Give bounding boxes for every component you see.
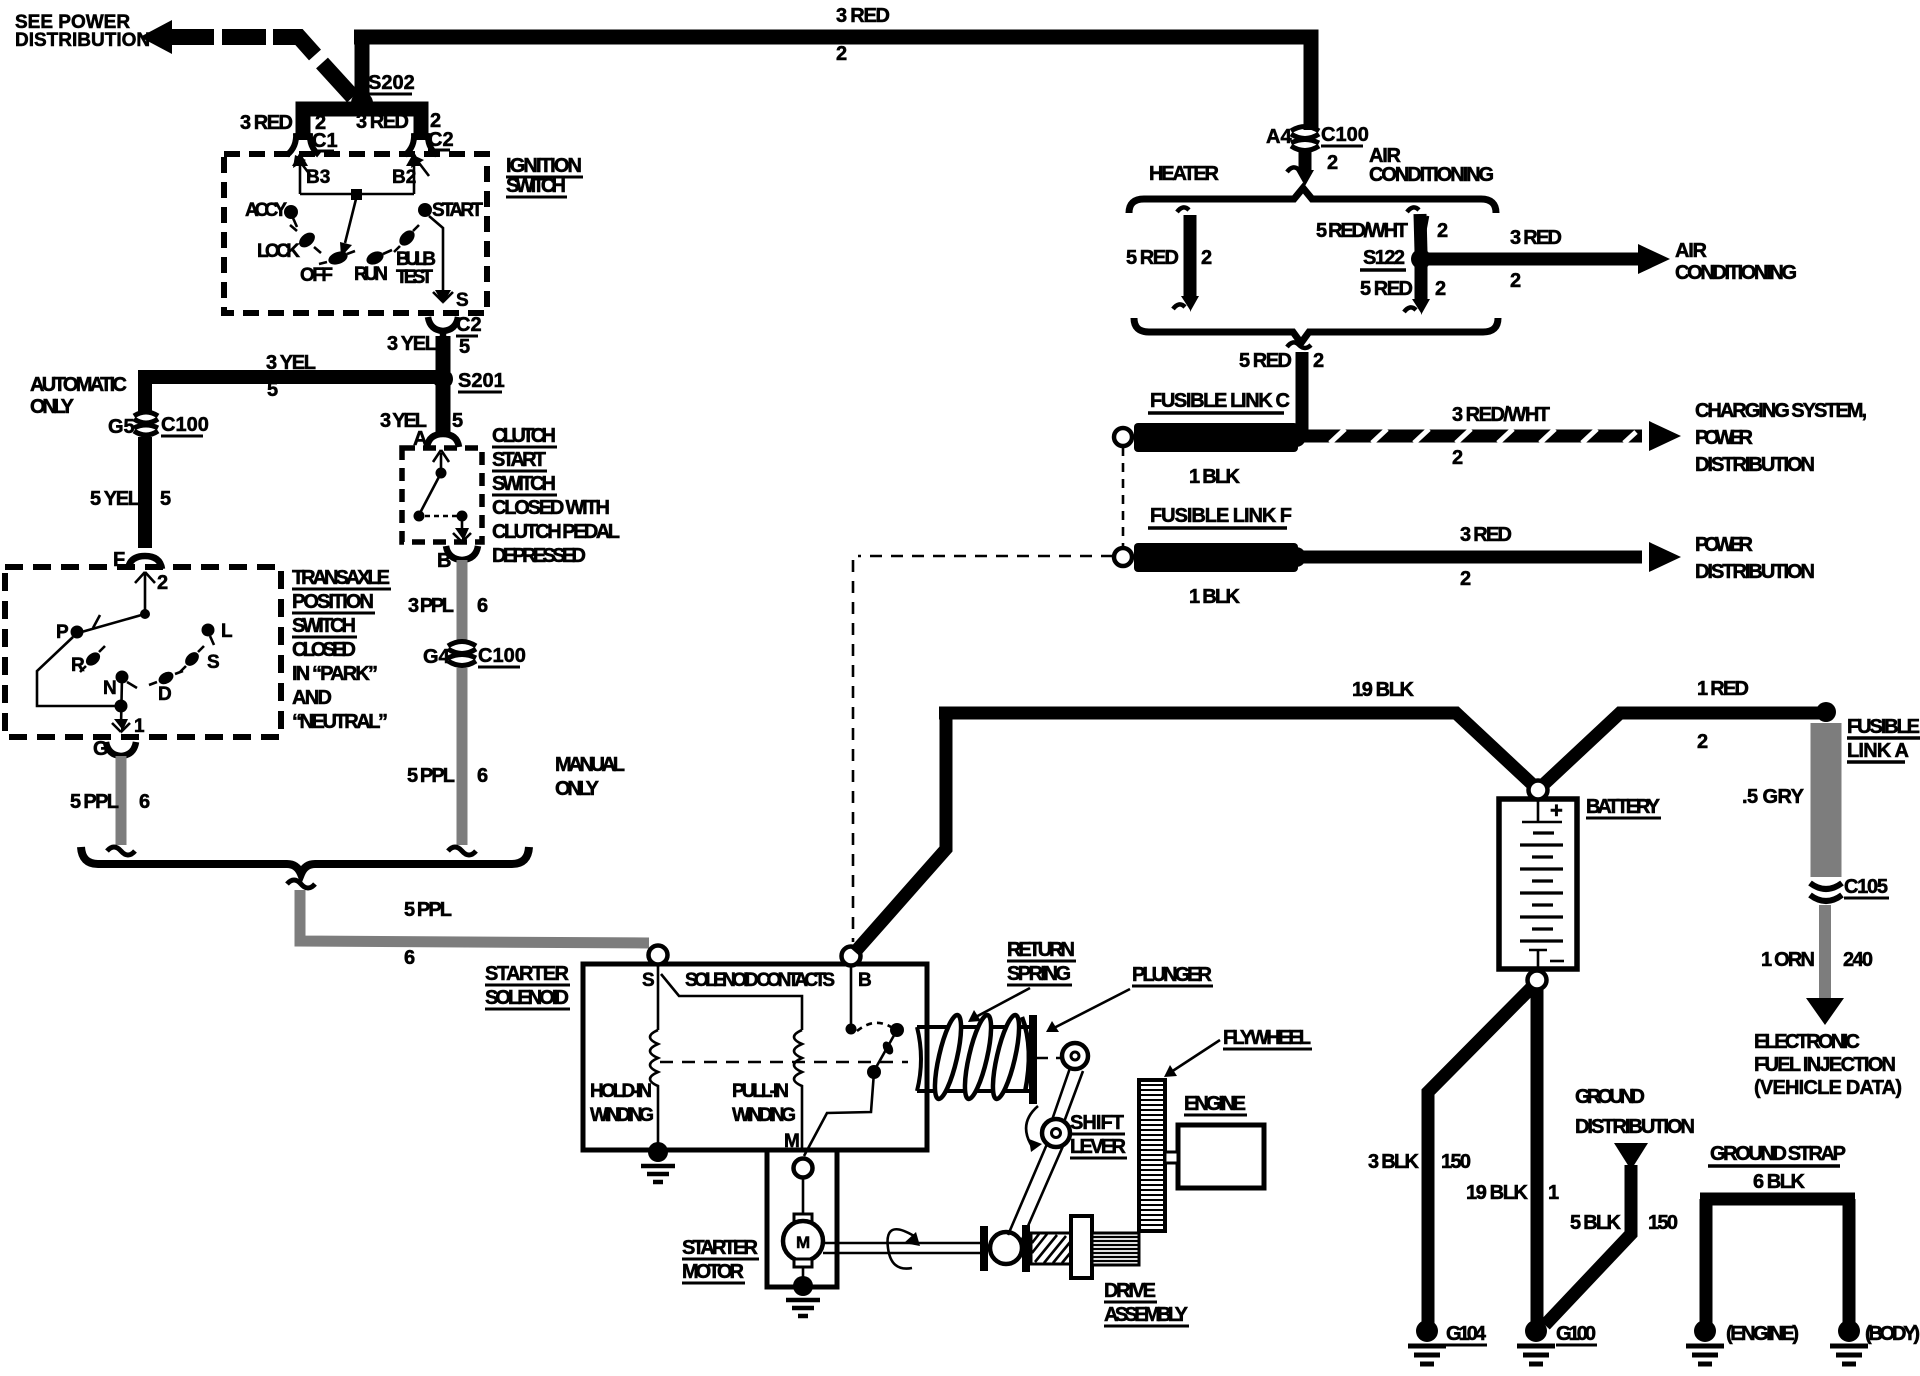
- connector C1 flare: [287, 133, 319, 155]
- svg-text:C2: C2: [456, 314, 482, 336]
- wire 5 RED below S122: [1415, 266, 1428, 300]
- svg-text:3 YEL: 3 YEL: [387, 333, 437, 355]
- connector G5 C100: [134, 412, 158, 423]
- ground starter motor: [793, 1276, 813, 1296]
- wire to heater brace: [1299, 152, 1312, 172]
- svg-text:S: S: [642, 970, 655, 991]
- wire 3 PPL: [457, 560, 468, 641]
- SEC_GROUNDS: [1368, 987, 1920, 1364]
- shift lever: [1052, 1068, 1083, 1122]
- svg-text:2: 2: [1201, 247, 1212, 269]
- contact START: [418, 203, 432, 217]
- svg-text:SWITCH: SWITCH: [292, 615, 356, 637]
- wire 5 YEL: [138, 437, 152, 548]
- wire 3 RED to power distribution: [1302, 551, 1642, 564]
- contact RUN: [364, 249, 385, 267]
- dashed axis to lever: [1037, 1057, 1062, 1060]
- svg-text:19 BLK: 19 BLK: [1352, 679, 1415, 701]
- svg-text:S202: S202: [368, 72, 415, 94]
- svg-text:SWITCH: SWITCH: [492, 473, 556, 495]
- svg-text:CHARGING SYSTEM,: CHARGING SYSTEM,: [1695, 400, 1867, 422]
- wire 5 PPL from G: [116, 756, 127, 845]
- svg-text:5: 5: [267, 379, 278, 401]
- svg-text:3 RED: 3 RED: [1510, 227, 1562, 249]
- wire dashed arrow to power distribution: [140, 20, 172, 54]
- svg-text:6: 6: [477, 765, 488, 787]
- svg-text:DISTRIBUTION: DISTRIBUTION: [1695, 561, 1815, 583]
- SEC_TOPLEFT: [15, 5, 1311, 176]
- svg-text:FUSIBLE LINK F: FUSIBLE LINK F: [1150, 505, 1292, 527]
- svg-text:1 ORN: 1 ORN: [1761, 949, 1815, 971]
- wire 5 RED/WHT to S122: [1407, 207, 1419, 212]
- svg-text:S122: S122: [1363, 247, 1405, 269]
- ground G100: [1525, 1320, 1547, 1342]
- svg-text:WINDING: WINDING: [590, 1105, 654, 1126]
- svg-text:ELECTRONIC: ELECTRONIC: [1754, 1031, 1860, 1053]
- svg-text:ONLY: ONLY: [555, 778, 600, 800]
- svg-text:A4: A4: [1266, 126, 1292, 148]
- clutch start switch box: [402, 448, 482, 542]
- svg-text:.5 GRY: .5 GRY: [1742, 786, 1805, 808]
- brace lower: [1134, 318, 1498, 343]
- contact L: [202, 624, 215, 637]
- svg-text:IN “PARK”: IN “PARK”: [292, 663, 378, 685]
- contact D: [156, 669, 175, 687]
- svg-text:C100: C100: [1321, 124, 1369, 146]
- shaft end plate: [980, 1226, 988, 1271]
- wire 19 BLK battery to G100: [1531, 989, 1544, 1326]
- svg-text:POSITION: POSITION: [292, 591, 374, 613]
- wire F feed to wiper: [144, 592, 147, 614]
- wire S202 to C1: [303, 109, 362, 140]
- svg-text:PULL-IN: PULL-IN: [732, 1081, 789, 1102]
- svg-text:G100: G100: [1556, 1323, 1596, 1345]
- wire B3-B2 bridge: [300, 193, 414, 196]
- pin B2: [413, 158, 416, 194]
- terminal S: [649, 946, 668, 965]
- plunger body: [917, 1027, 1030, 1091]
- ground body: [1838, 1320, 1860, 1342]
- SEC_FUSIBLES: [858, 390, 1867, 608]
- ball joint: [990, 1232, 1022, 1264]
- svg-text:3 YEL: 3 YEL: [266, 352, 316, 374]
- svg-text:5 RED: 5 RED: [1360, 278, 1413, 300]
- wire 3 RED to air conditioning: [1428, 253, 1642, 266]
- svg-text:1: 1: [134, 716, 145, 737]
- svg-text:C100: C100: [478, 645, 526, 667]
- drive assembly: [1022, 1225, 1030, 1272]
- svg-text:5 PPL: 5 PPL: [404, 899, 452, 921]
- ground G104: [1416, 1320, 1438, 1342]
- svg-text:(BODY): (BODY): [1865, 1323, 1920, 1345]
- svg-text:FUEL INJECTION: FUEL INJECTION: [1754, 1054, 1896, 1076]
- motor M: [802, 1178, 805, 1214]
- svg-text:G4: G4: [423, 646, 451, 668]
- svg-text:5 RED: 5 RED: [1239, 350, 1292, 372]
- svg-text:G5: G5: [108, 416, 135, 438]
- contact ACCY: [284, 205, 298, 219]
- svg-text:POWER: POWER: [1695, 534, 1754, 556]
- svg-text:5: 5: [160, 488, 171, 510]
- svg-text:S201: S201: [458, 370, 505, 392]
- svg-text:3 RED: 3 RED: [1460, 524, 1512, 546]
- svg-text:LEVER: LEVER: [1070, 1136, 1127, 1158]
- svg-text:STARTER: STARTER: [682, 1237, 759, 1259]
- svg-text:CONDITIONING: CONDITIONING: [1369, 164, 1494, 186]
- svg-text:SPRING: SPRING: [1007, 963, 1071, 985]
- wire S to windings: [657, 965, 660, 1030]
- svg-text:240: 240: [1843, 949, 1873, 971]
- svg-text:3 PPL: 3 PPL: [408, 595, 454, 617]
- SEC_19BLK: [853, 560, 1836, 952]
- svg-text:2: 2: [1697, 731, 1708, 753]
- wire S202 to C2: [362, 109, 421, 140]
- ignition switch box: [224, 154, 487, 313]
- svg-text:TRANSAXLE: TRANSAXLE: [292, 567, 390, 589]
- contact R: [83, 650, 102, 669]
- node S202: [351, 92, 373, 114]
- svg-text:3 RED/WHT: 3 RED/WHT: [1452, 404, 1550, 426]
- wire 3 YEL horizontal automatic branch: [145, 377, 443, 414]
- connector F: [128, 556, 162, 569]
- wire 5 RED to fusible link C: [1296, 352, 1309, 432]
- connector B flare: [446, 546, 478, 560]
- svg-text:DRIVE: DRIVE: [1104, 1280, 1156, 1302]
- svg-text:CLUTCH PEDAL: CLUTCH PEDAL: [492, 521, 620, 543]
- svg-text:RUN: RUN: [354, 264, 388, 285]
- svg-text:150: 150: [1648, 1212, 1678, 1234]
- svg-text:HEATER: HEATER: [1149, 163, 1220, 185]
- svg-text:5 RED/WHT: 5 RED/WHT: [1316, 220, 1408, 242]
- svg-text:3 RED: 3 RED: [240, 112, 293, 134]
- wire 3 BLK battery to G104: [1428, 987, 1532, 1326]
- starter motor box: [767, 1150, 837, 1287]
- pin A arrow: [433, 450, 449, 472]
- flywheel: [1139, 1080, 1165, 1231]
- lever rotation arrow: [1026, 1106, 1038, 1148]
- svg-text:ENGINE: ENGINE: [1184, 1093, 1246, 1115]
- svg-text:OFF: OFF: [300, 265, 333, 286]
- svg-text:5 RED: 5 RED: [1126, 247, 1179, 269]
- pin B3: [299, 158, 302, 194]
- svg-text:3 BLK: 3 BLK: [1368, 1151, 1420, 1173]
- svg-text:G: G: [93, 738, 109, 760]
- svg-text:BATTERY: BATTERY: [1586, 796, 1661, 818]
- node S122: [1411, 249, 1431, 269]
- starter solenoid box: [583, 964, 927, 1150]
- svg-text:2: 2: [157, 572, 168, 594]
- wire 19 BLK solenoid B to battery: [855, 713, 1533, 952]
- transaxle position switch box: [5, 567, 281, 737]
- wire wiper arrow to OFF: [345, 199, 356, 243]
- svg-text:150: 150: [1441, 1151, 1471, 1173]
- SEC_GATHER: [81, 847, 649, 969]
- svg-text:+: +: [1550, 798, 1563, 823]
- svg-text:START: START: [432, 200, 483, 221]
- svg-text:2: 2: [1510, 270, 1521, 292]
- svg-text:N: N: [103, 678, 117, 699]
- svg-text:2: 2: [1435, 278, 1446, 300]
- svg-text:AUTOMATIC: AUTOMATIC: [30, 374, 127, 396]
- svg-text:MANUAL: MANUAL: [555, 754, 625, 776]
- contact BULB TEST: [396, 227, 417, 248]
- svg-text:1 BLK: 1 BLK: [1189, 586, 1241, 608]
- svg-text:2: 2: [1460, 568, 1471, 590]
- svg-text:RETURN: RETURN: [1007, 939, 1075, 961]
- svg-text:B3: B3: [306, 167, 330, 188]
- svg-text:POWER: POWER: [1695, 427, 1754, 449]
- wire 3 RED/WHT striped to charging system: [1302, 430, 1642, 443]
- brace upper: [1129, 188, 1496, 213]
- wire 5 PPL: [457, 668, 468, 845]
- brace gathering 5 PPL wires: [81, 847, 529, 874]
- node S201: [433, 369, 453, 389]
- svg-text:ASSEMBLY: ASSEMBLY: [1104, 1304, 1189, 1326]
- svg-text:CLOSED: CLOSED: [292, 639, 356, 661]
- node below N: [115, 700, 128, 713]
- svg-text:1 RED: 1 RED: [1697, 678, 1749, 700]
- svg-text:ACCY: ACCY: [245, 200, 287, 221]
- wire 1 ORN to EFI: [1819, 905, 1831, 1000]
- SEC_MECH: [917, 939, 1312, 1326]
- connector G4 C100: [448, 642, 476, 654]
- svg-text:D: D: [158, 684, 172, 705]
- SEC_CLUTCH: [380, 386, 625, 855]
- svg-text:HOLD-IN: HOLD-IN: [590, 1081, 652, 1102]
- svg-text:R: R: [71, 655, 85, 676]
- SEC_FLA: [1742, 716, 1920, 1099]
- svg-text:(ENGINE): (ENGINE): [1726, 1323, 1799, 1345]
- pin B arrow: [461, 521, 464, 536]
- svg-text:LINK A: LINK A: [1847, 740, 1909, 762]
- contact LOCK: [296, 230, 318, 251]
- ground strap: [1700, 1199, 1855, 1326]
- svg-text:6: 6: [139, 791, 150, 813]
- svg-text:GROUND: GROUND: [1575, 1086, 1645, 1108]
- battery: [1499, 799, 1577, 969]
- svg-text:1 BLK: 1 BLK: [1189, 466, 1241, 488]
- svg-text:S: S: [207, 652, 220, 673]
- svg-text:GROUND STRAP: GROUND STRAP: [1710, 1143, 1846, 1165]
- rotation arrow: [888, 1229, 914, 1268]
- connector C2 flare: [405, 133, 437, 155]
- svg-text:5 YEL: 5 YEL: [90, 488, 140, 510]
- svg-text:2: 2: [1437, 220, 1448, 242]
- svg-text:2: 2: [1452, 447, 1463, 469]
- SEC_MOTOR: [682, 1150, 1022, 1316]
- contact S: [182, 649, 201, 668]
- svg-text:5 BLK: 5 BLK: [1570, 1212, 1622, 1234]
- svg-text:C100: C100: [161, 414, 209, 436]
- svg-text:CLUTCH: CLUTCH: [492, 425, 556, 447]
- svg-text:DEPRESSED: DEPRESSED: [492, 545, 586, 567]
- wire 1 RED battery to fusible link A: [1543, 713, 1820, 785]
- ground solenoid: [648, 1142, 668, 1162]
- svg-text:6: 6: [477, 595, 488, 617]
- svg-text:B2: B2: [392, 167, 416, 188]
- contact OFF: [327, 249, 350, 267]
- svg-text:P: P: [56, 622, 69, 643]
- shaft: [823, 1243, 980, 1253]
- svg-text:2: 2: [836, 43, 847, 65]
- svg-text:FLYWHEEL: FLYWHEEL: [1223, 1027, 1311, 1049]
- svg-text:G104: G104: [1446, 1323, 1487, 1345]
- svg-text:TEST: TEST: [396, 267, 433, 288]
- wire 3 YEL S201 to clutch switch: [436, 386, 451, 432]
- svg-text:5: 5: [459, 336, 470, 358]
- dashed plunger axis: [660, 1061, 908, 1064]
- svg-text:(VEHICLE DATA): (VEHICLE DATA): [1754, 1077, 1902, 1099]
- svg-text:CONDITIONING: CONDITIONING: [1675, 262, 1797, 284]
- svg-text:3 RED: 3 RED: [356, 111, 409, 133]
- wire START to S: [429, 216, 443, 296]
- contact P: [71, 626, 84, 639]
- svg-text:ONLY: ONLY: [30, 396, 75, 418]
- svg-text:M: M: [796, 1233, 810, 1252]
- SEC_TRANSAXLE: [5, 567, 391, 855]
- svg-text:DISTRIBUTION: DISTRIBUTION: [1575, 1116, 1695, 1138]
- SEC_SOLENOID: [485, 946, 927, 1183]
- svg-text:DISTRIBUTION: DISTRIBUTION: [1695, 454, 1815, 476]
- connector A4 C100: [1291, 127, 1319, 139]
- terminal M: [794, 1159, 813, 1178]
- svg-text:6: 6: [404, 947, 415, 969]
- svg-text:SHIFT: SHIFT: [1070, 1112, 1124, 1134]
- contact N: [116, 671, 129, 684]
- svg-text:SWITCH: SWITCH: [506, 175, 566, 197]
- coil pull-in winding: [794, 1030, 802, 1150]
- return spring coils: [930, 1013, 1029, 1101]
- svg-text:S: S: [456, 290, 469, 311]
- svg-text:FUSIBLE LINK C: FUSIBLE LINK C: [1150, 390, 1290, 412]
- plunger end cap: [1029, 1015, 1037, 1104]
- svg-text:AND: AND: [292, 687, 332, 709]
- svg-text:IGNITION: IGNITION: [506, 155, 582, 177]
- SEC_IGNITION: [224, 152, 583, 372]
- dashed link between fusible links: [1122, 447, 1125, 548]
- svg-text:SOLENOID CONTACTS: SOLENOID CONTACTS: [685, 970, 835, 991]
- wire 5 PPL to starter solenoid: [300, 890, 649, 943]
- svg-text:5 PPL: 5 PPL: [407, 765, 455, 787]
- svg-text:1: 1: [1548, 1182, 1559, 1204]
- switch arm: [420, 473, 441, 513]
- wire 5 RED heater branch: [1177, 207, 1189, 212]
- svg-text:19 BLK: 19 BLK: [1466, 1182, 1529, 1204]
- svg-text:C105: C105: [1844, 876, 1888, 898]
- svg-text:CLOSED WITH: CLOSED WITH: [492, 497, 610, 519]
- ground engine: [1694, 1320, 1716, 1342]
- wire 5 BLK from ground distribution: [1614, 1143, 1648, 1170]
- svg-text:2: 2: [1327, 152, 1338, 174]
- solenoid contacts mechanism: [850, 965, 853, 1026]
- wire P to N leg: [37, 637, 121, 706]
- fusible link A: [1811, 723, 1842, 877]
- svg-text:6 BLK: 6 BLK: [1753, 1171, 1806, 1193]
- svg-text:L: L: [221, 621, 233, 642]
- svg-text:WINDING: WINDING: [732, 1105, 796, 1126]
- svg-text:AIR: AIR: [1675, 240, 1708, 262]
- connector A flare: [427, 434, 459, 447]
- svg-text:3 RED: 3 RED: [836, 5, 890, 27]
- svg-text:LOCK: LOCK: [257, 241, 300, 262]
- svg-text:5 PPL: 5 PPL: [70, 791, 119, 813]
- connector C2 below ignition switch: [428, 317, 458, 340]
- svg-text:B: B: [858, 970, 872, 991]
- svg-text:DISTRIBUTION: DISTRIBUTION: [15, 30, 150, 51]
- svg-text:“NEUTRAL”: “NEUTRAL”: [292, 711, 388, 733]
- dashed line fusible links to solenoid B: [852, 560, 855, 942]
- svg-text:PLUNGER: PLUNGER: [1132, 964, 1213, 986]
- terminal B: [842, 947, 861, 966]
- svg-text:5: 5: [452, 410, 463, 432]
- wiper arm to P: [78, 614, 145, 633]
- SEC_AUTOBRANCH: [30, 352, 505, 594]
- wire 3 YEL to S201: [436, 336, 451, 372]
- svg-text:SOLENOID: SOLENOID: [485, 987, 569, 1009]
- connector G: [106, 742, 136, 756]
- connector C105: [1810, 883, 1842, 901]
- SEC_HEATER: [1126, 124, 1797, 432]
- wire 3 RED top horizontal: [354, 37, 1311, 130]
- svg-text:MOTOR: MOTOR: [682, 1261, 745, 1283]
- svg-text:2: 2: [1313, 350, 1324, 372]
- coil hold-in winding: [650, 1030, 658, 1148]
- svg-text:STARTER: STARTER: [485, 963, 570, 985]
- svg-text:START: START: [492, 449, 546, 471]
- svg-text:FUSIBLE: FUSIBLE: [1847, 716, 1920, 738]
- SEC_BATTERY: [1499, 781, 1661, 990]
